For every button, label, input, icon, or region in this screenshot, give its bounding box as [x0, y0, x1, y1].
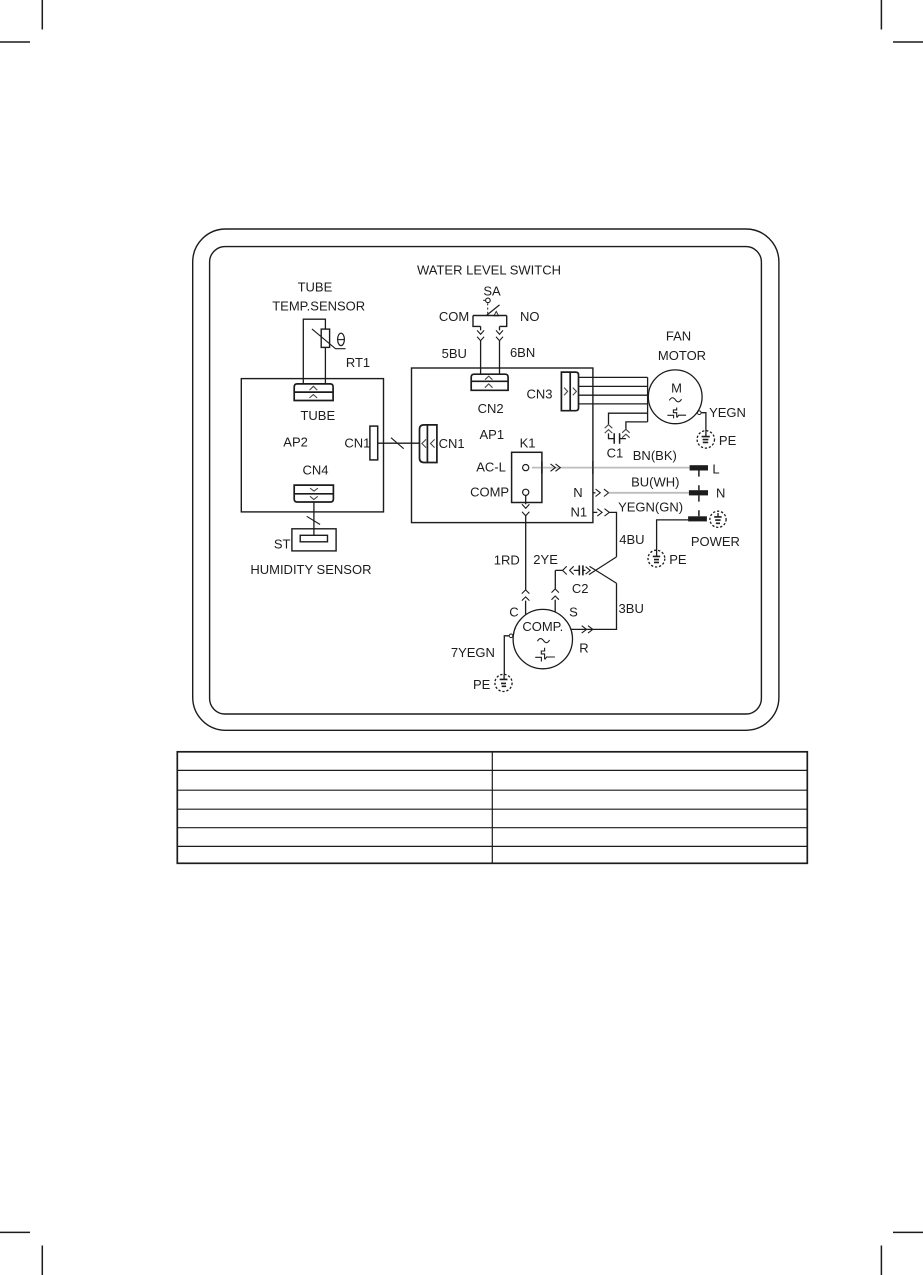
wire sensor leads — [303, 319, 325, 384]
svg-text:AP1: AP1 — [480, 427, 505, 442]
svg-text:L: L — [712, 462, 719, 477]
svg-text:ST: ST — [274, 536, 291, 551]
svg-text:FAN: FAN — [666, 328, 691, 343]
svg-text:1RD: 1RD — [494, 552, 520, 567]
wire N1 4BU — [570, 504, 644, 557]
wire 3BU — [571, 583, 644, 655]
connector CN1 plug on AP1 — [420, 425, 465, 463]
svg-text:COM: COM — [439, 309, 469, 324]
connector CN3 — [526, 372, 578, 411]
board AP2 — [241, 379, 383, 512]
connector CN4 — [294, 463, 333, 502]
svg-text:PE: PE — [473, 677, 491, 692]
wire C1 taps — [609, 413, 648, 429]
switch SA — [439, 283, 540, 326]
svg-text:C: C — [509, 604, 518, 619]
svg-text:PE: PE — [719, 433, 737, 448]
svg-text:COMP.: COMP. — [522, 619, 563, 634]
svg-text:4BU: 4BU — [619, 532, 644, 547]
wire 1RD compressor C — [494, 495, 530, 619]
capacitor C2 — [555, 565, 590, 596]
wire plug dashed link — [698, 470, 700, 516]
capacitor C1 — [605, 425, 630, 461]
svg-text:7YEGN: 7YEGN — [451, 645, 495, 660]
svg-text:C2: C2 — [572, 581, 589, 596]
svg-text:CN3: CN3 — [526, 386, 552, 401]
svg-text:N1: N1 — [570, 504, 587, 519]
relay K1 — [470, 436, 542, 503]
svg-text:2YE: 2YE — [533, 552, 558, 567]
ground PE compressor — [473, 674, 512, 691]
ground PE fan motor — [697, 431, 736, 448]
svg-text:CN1: CN1 — [344, 436, 370, 451]
svg-text:TEMP.SENSOR: TEMP.SENSOR — [272, 299, 365, 314]
svg-text:N: N — [716, 486, 725, 501]
svg-text:MOTOR: MOTOR — [658, 348, 706, 363]
svg-text:K1: K1 — [520, 436, 536, 451]
svg-text:AP2: AP2 — [283, 435, 308, 450]
terminal L — [690, 462, 720, 477]
svg-text:CN4: CN4 — [302, 463, 328, 478]
svg-text:RT1: RT1 — [346, 355, 370, 370]
svg-text:M: M — [671, 380, 682, 395]
thermistor RT1 — [312, 329, 370, 370]
svg-text:5BU: 5BU — [442, 346, 467, 361]
wire 4BU-3BU crossover — [589, 557, 617, 583]
svg-text:C1: C1 — [607, 445, 624, 460]
board AP1 — [412, 368, 593, 523]
connector CN2 — [471, 374, 508, 416]
svg-text:YEGN(GN): YEGN(GN) — [618, 500, 683, 515]
svg-text:CN1: CN1 — [439, 436, 465, 451]
wire YEGN(GN) earth — [618, 500, 688, 551]
svg-text:WATER LEVEL SWITCH: WATER LEVEL SWITCH — [417, 263, 561, 278]
wire 7YEGN compressor earth — [451, 634, 513, 675]
terminal N — [689, 486, 725, 501]
wire 5BU — [442, 326, 484, 374]
wire CN4 to ST — [313, 502, 315, 535]
wires CN3 to fan motor — [579, 377, 648, 422]
svg-text:COMP: COMP — [470, 485, 509, 500]
svg-text:NO: NO — [520, 309, 540, 324]
label TUBE TEMP.SENSOR — [272, 279, 365, 313]
compressor COMP — [513, 609, 572, 668]
wire CN1 link — [378, 442, 420, 444]
svg-text:TUBE: TUBE — [298, 279, 333, 294]
wire BU(WH) neutral — [573, 475, 689, 501]
svg-text:HUMIDITY SENSOR: HUMIDITY SENSOR — [250, 562, 371, 577]
connector TUBE — [294, 384, 335, 423]
ground PE power cord — [648, 550, 687, 567]
svg-text:R: R — [579, 640, 588, 655]
svg-text:BN(BK): BN(BK) — [633, 448, 677, 463]
svg-text:BU(WH): BU(WH) — [631, 475, 679, 490]
wire 6BN — [496, 326, 535, 374]
svg-text:CN2: CN2 — [478, 401, 504, 416]
svg-text:PE: PE — [669, 552, 687, 567]
svg-text:TUBE: TUBE — [300, 408, 335, 423]
svg-text:3BU: 3BU — [619, 601, 644, 616]
wire YEGN motor earth — [698, 405, 746, 432]
parts table — [177, 752, 807, 864]
wire 2YE compressor S — [533, 552, 578, 619]
svg-text:POWER: POWER — [691, 534, 740, 549]
svg-text:S: S — [569, 604, 578, 619]
fan motor M — [648, 328, 706, 423]
svg-text:AC-L: AC-L — [476, 460, 506, 475]
connector CN1 socket on AP2 — [344, 426, 377, 460]
svg-text:YEGN: YEGN — [709, 405, 746, 420]
terminal PE power — [688, 511, 740, 549]
svg-text:SA: SA — [483, 283, 501, 298]
humidity sensor ST — [250, 529, 371, 577]
svg-text:N: N — [573, 485, 582, 500]
wire BN(BK) live — [532, 448, 690, 474]
svg-text:6BN: 6BN — [510, 345, 535, 360]
